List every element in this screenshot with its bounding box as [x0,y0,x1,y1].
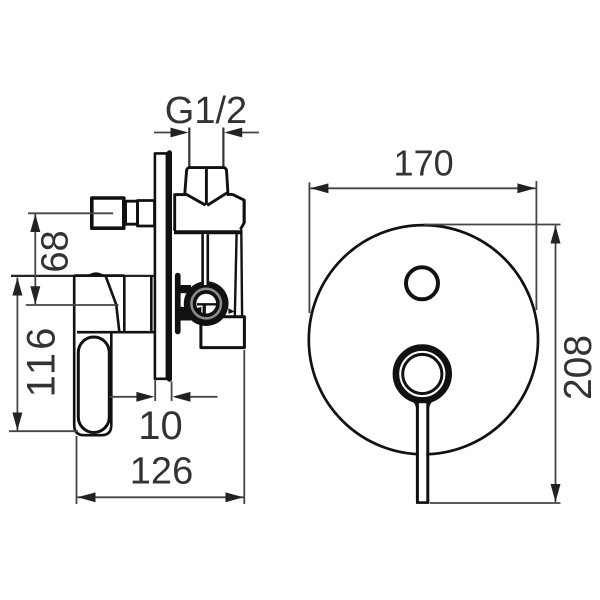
front plate circle [309,225,538,454]
wire: body top edge + 116 top extension line [11,275,155,277]
left down pipe (white over ring top) [204,234,207,285]
valve circle (diverter) [184,281,229,326]
dim 170 [309,181,536,313]
lever bar [419,403,426,501]
dim 68 [34,214,36,304]
gasket strip behind plate [175,273,181,335]
left outlet neck [126,201,138,224]
mixer nut body [174,193,244,232]
top fitting (tapered union) [185,168,228,206]
pivot dome [89,273,104,276]
right outlet pipe lines [243,201,246,224]
valve right tab [228,308,234,314]
valve inner wedge [197,307,202,314]
wall plate black bar [167,150,172,381]
dim 116 [16,278,18,431]
svg-text:208: 208 [557,335,600,400]
diverter button [406,267,438,299]
svg-text:126: 126 [130,451,193,493]
68 top extension / leader line [28,212,113,214]
left outlet rect3 [138,201,155,227]
dim G1/2 [154,132,259,134]
G1/2 pipe extension lines [189,128,223,168]
left outlet rect1 [92,198,124,228]
dim 10 [110,380,218,402]
valve inner chord [197,303,216,305]
lever ring outer [396,348,449,401]
dim 126 [77,350,245,504]
lever capsule slot [78,337,109,433]
wall plate white body [155,153,167,378]
svg-text:G1/2: G1/2 [165,90,247,132]
handle body top slant edges [74,276,154,333]
svg-text:170: 170 [394,143,454,184]
lever handle outline [74,276,111,436]
dim 208 [424,225,561,504]
valve inner bar [203,304,206,314]
lower right box [201,317,245,348]
connector stubs [180,285,192,293]
svg-text:116: 116 [20,325,64,398]
svg-text:68: 68 [35,230,77,272]
lever ring inner [403,354,442,393]
svg-text:10: 10 [138,404,183,448]
